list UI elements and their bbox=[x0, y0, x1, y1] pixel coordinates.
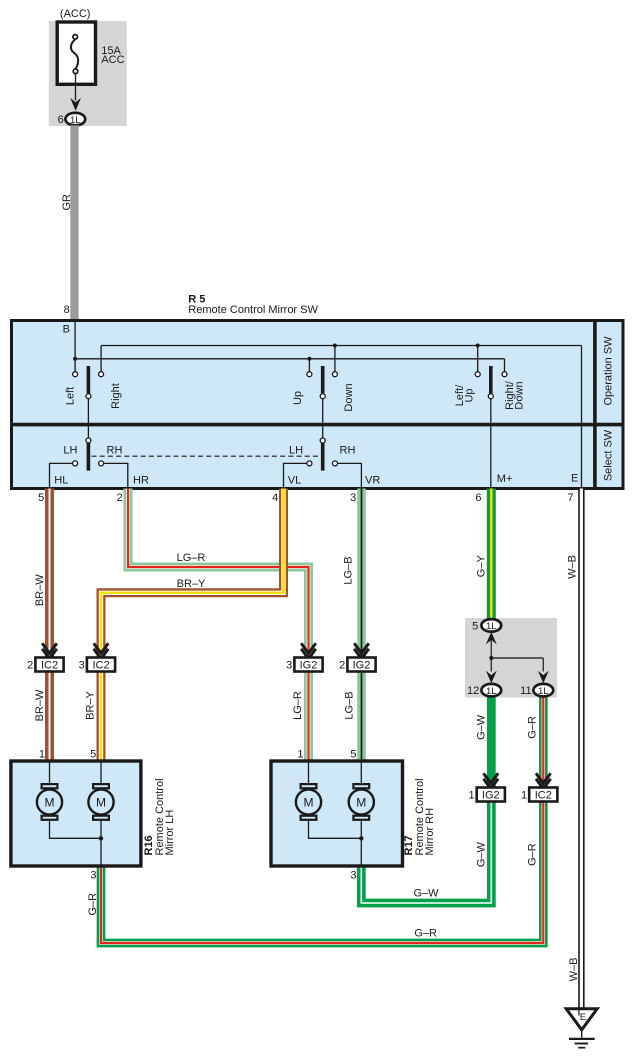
wire W-B pin E to ground bbox=[578, 489, 584, 1009]
wire LG-B pin VR to IG2 to R17 pin 5 bbox=[357, 489, 366, 761]
svg-text:BR–Y: BR–Y bbox=[177, 578, 206, 590]
svg-text:IC2: IC2 bbox=[41, 660, 58, 672]
svg-text:2: 2 bbox=[27, 660, 33, 672]
svg-text:1L: 1L bbox=[70, 115, 81, 126]
svg-text:8: 8 bbox=[64, 304, 70, 316]
bus line upper (E feed) bbox=[101, 345, 581, 347]
svg-text:Left: Left bbox=[65, 387, 77, 405]
junction node Down bbox=[333, 344, 337, 348]
svg-text:G–R: G–R bbox=[87, 893, 99, 916]
switch lever (operation) at x=322.7 bbox=[321, 366, 325, 393]
connector 1L pin 12 bbox=[481, 684, 501, 697]
junction node Left/Up bbox=[476, 344, 480, 348]
svg-text:LG–R: LG–R bbox=[292, 691, 304, 720]
svg-text:2: 2 bbox=[117, 492, 123, 504]
connector IC2 pin 2 bbox=[35, 658, 63, 672]
wire pin1 to motor1 bbox=[308, 762, 310, 784]
contact LH-1 bbox=[73, 461, 78, 466]
wire RH-1 to pin HR bbox=[101, 463, 128, 488]
svg-text:M: M bbox=[96, 795, 106, 809]
svg-text:5: 5 bbox=[472, 620, 478, 632]
motor M left bbox=[296, 789, 321, 814]
svg-text:LG–B: LG–B bbox=[344, 691, 356, 719]
wire motor2 to junction bbox=[100, 821, 102, 839]
junction node in 1L block bbox=[489, 656, 493, 660]
connector IG2 (pin 1) arrows bbox=[484, 773, 499, 783]
svg-text:LG–B: LG–B bbox=[343, 556, 355, 584]
ground E triangle bbox=[566, 1009, 597, 1030]
svg-text:M: M bbox=[304, 795, 314, 809]
stub to Left/Up contact bbox=[477, 346, 479, 372]
stub to Up contact bbox=[308, 359, 310, 372]
wire RH-2 to pin VR bbox=[335, 463, 361, 488]
svg-text:IG2: IG2 bbox=[300, 660, 318, 672]
connector IG2 pin 2 bbox=[347, 658, 375, 672]
svg-text:Remote Control Mirror SW: Remote Control Mirror SW bbox=[188, 304, 318, 316]
remote control mirror SW R5 box bbox=[12, 321, 624, 489]
svg-text:1: 1 bbox=[521, 790, 527, 802]
svg-text:1L: 1L bbox=[486, 686, 497, 697]
connector IC2 (pin 3) arrows bbox=[94, 643, 109, 653]
wire G-W IG2 to R17 pin 3 bbox=[361, 801, 491, 903]
svg-text:1: 1 bbox=[39, 748, 45, 760]
svg-text:RH: RH bbox=[340, 444, 356, 456]
svg-text:VL: VL bbox=[288, 475, 301, 487]
svg-text:G–R: G–R bbox=[527, 843, 539, 866]
link to select lever bbox=[322, 399, 324, 438]
wire LH-1 to pin HL bbox=[50, 463, 76, 488]
connector IC2 pin 1 bbox=[529, 788, 557, 802]
fuse panel gray block bbox=[49, 21, 127, 126]
contact Down bbox=[332, 372, 337, 377]
contact LH-2 bbox=[307, 461, 312, 466]
svg-text:G–W: G–W bbox=[413, 888, 439, 900]
contact Right bbox=[99, 372, 104, 377]
svg-text:M: M bbox=[45, 795, 55, 809]
svg-text:4: 4 bbox=[272, 492, 278, 504]
svg-text:2: 2 bbox=[339, 660, 345, 672]
stub to Left contact bbox=[74, 359, 76, 372]
svg-text:Up: Up bbox=[292, 391, 304, 405]
svg-text:G–Y: G–Y bbox=[475, 555, 487, 578]
connector 1L (fuse side) bbox=[65, 113, 85, 126]
svg-text:B: B bbox=[63, 324, 70, 336]
svg-text:1: 1 bbox=[297, 748, 303, 760]
connector 1L pin 11 bbox=[533, 684, 553, 697]
contact Right/Down bbox=[502, 372, 507, 377]
arrow down into 1L pin 11 bbox=[538, 671, 549, 683]
junction node bbox=[99, 836, 103, 840]
switch lever (select) bbox=[87, 443, 91, 471]
wire junction to pin 3 bbox=[360, 838, 362, 865]
svg-text:(ACC): (ACC) bbox=[60, 8, 91, 20]
junction block internal wire vertical bbox=[490, 641, 492, 672]
wire G-W 1L to IG2 bbox=[487, 696, 496, 788]
connector 1L pin 5 bbox=[481, 619, 501, 632]
wire E vertical to pin 7 bbox=[581, 346, 583, 489]
connector IG2 (pin 3) arrows bbox=[301, 643, 316, 653]
R16 box bbox=[11, 761, 141, 866]
svg-text:IC2: IC2 bbox=[92, 660, 109, 672]
divider vertical (label column) bbox=[593, 319, 597, 490]
svg-text:LH: LH bbox=[289, 444, 303, 456]
svg-text:BR–Y: BR–Y bbox=[85, 690, 97, 719]
svg-text:5: 5 bbox=[90, 748, 96, 760]
svg-text:IG2: IG2 bbox=[353, 660, 371, 672]
contact RH-2 bbox=[333, 461, 338, 466]
wire BR-Y pin VL to IC2 to R16 pin 5 bbox=[101, 489, 284, 761]
contact RH-1 bbox=[99, 461, 104, 466]
svg-text:BR–W: BR–W bbox=[34, 689, 46, 721]
svg-text:M: M bbox=[356, 795, 366, 809]
svg-text:E: E bbox=[580, 1012, 586, 1023]
svg-text:BR–W: BR–W bbox=[34, 574, 46, 606]
wire junction to pin 3 bbox=[100, 838, 102, 865]
fuse F "15A ACC" body bbox=[57, 22, 95, 84]
arrow into connector 1L bbox=[70, 98, 81, 111]
svg-text:1L: 1L bbox=[486, 621, 497, 632]
wire G-R IC2 to R16 pin 3 bbox=[101, 801, 543, 943]
svg-text:6: 6 bbox=[58, 114, 64, 126]
arrow down into 1L pin 12 bbox=[486, 671, 497, 683]
divider horizontal (Operation/Select) bbox=[10, 423, 625, 427]
contact Up bbox=[307, 372, 312, 377]
junction node bbox=[359, 836, 363, 840]
stub to Right contact bbox=[100, 346, 102, 372]
wire fuse to connector 1L bbox=[75, 74, 77, 101]
svg-text:Mirror RH: Mirror RH bbox=[424, 808, 436, 856]
svg-text:W–B: W–B bbox=[567, 555, 579, 579]
junction block internal wire right branch bbox=[542, 658, 544, 672]
link to select lever bbox=[87, 399, 89, 438]
svg-text:LH: LH bbox=[63, 444, 77, 456]
svg-text:GR: GR bbox=[61, 194, 73, 211]
motor M right bbox=[88, 789, 113, 814]
svg-text:E: E bbox=[571, 472, 578, 484]
contact Left/Up bbox=[475, 372, 480, 377]
wire BR-W pin HL to IC2 to R16 pin 1 bbox=[45, 489, 54, 761]
arrow up into 1L pin 5 bbox=[486, 632, 497, 644]
wire G-Y pin M+ to 1L bbox=[487, 489, 496, 620]
switch lever (operation) at x=490.8 bbox=[489, 366, 493, 393]
svg-text:3: 3 bbox=[79, 660, 85, 672]
wire LG-R pin HR to IG2 to R17 pin 1 bbox=[128, 489, 309, 761]
ground stem bbox=[581, 1030, 583, 1038]
svg-text:7: 7 bbox=[567, 492, 573, 504]
svg-text:1L: 1L bbox=[538, 686, 549, 697]
svg-text:IC2: IC2 bbox=[535, 790, 552, 802]
svg-text:HL: HL bbox=[54, 475, 68, 487]
contact Left bbox=[73, 372, 78, 377]
svg-text:HR: HR bbox=[133, 475, 149, 487]
R17 box bbox=[271, 761, 403, 866]
connector IC2 (pin 1) arrows bbox=[536, 773, 551, 783]
svg-text:11: 11 bbox=[520, 685, 531, 697]
wire LH-2 to pin VL bbox=[284, 463, 310, 488]
svg-text:5: 5 bbox=[38, 492, 44, 504]
junction block gray panel (1L) bbox=[465, 618, 557, 698]
junction block internal wire horizontal bbox=[491, 657, 543, 659]
svg-text:LG–R: LG–R bbox=[177, 552, 206, 564]
connector IC2 (pin 2) arrows bbox=[42, 643, 57, 653]
svg-text:W–B: W–B bbox=[568, 957, 580, 981]
stub to Down contact bbox=[334, 346, 336, 372]
svg-text:G–W: G–W bbox=[475, 841, 487, 867]
connector IG2 (pin 2) arrows bbox=[354, 643, 369, 653]
junction node B bbox=[73, 357, 77, 361]
svg-text:12: 12 bbox=[467, 685, 479, 697]
svg-text:M+: M+ bbox=[497, 473, 513, 485]
svg-text:G–R: G–R bbox=[414, 928, 437, 940]
fuse element bbox=[73, 35, 78, 40]
svg-text:3: 3 bbox=[350, 492, 356, 504]
wire motor1 to junction bbox=[309, 821, 362, 839]
svg-text:Down: Down bbox=[514, 381, 526, 409]
svg-text:RH: RH bbox=[107, 444, 123, 456]
wire B vertical bbox=[74, 319, 76, 359]
svg-text:5: 5 bbox=[350, 748, 356, 760]
svg-text:ACC: ACC bbox=[101, 54, 124, 66]
motor M left bbox=[37, 789, 62, 814]
wire M+ lever to pin 6 bbox=[490, 399, 492, 489]
wire pin1 to motor1 bbox=[49, 762, 51, 784]
junction node Up bbox=[307, 357, 311, 361]
wire motor1 to junction bbox=[50, 821, 102, 839]
switch lever (select) bbox=[321, 443, 325, 471]
wire G-R 1L to IC2 bbox=[539, 696, 548, 788]
wire pin5 to motor2 bbox=[360, 762, 362, 784]
svg-text:3: 3 bbox=[350, 869, 356, 881]
bus line lower (B feed) bbox=[75, 358, 504, 360]
svg-text:Operation SW: Operation SW bbox=[603, 336, 615, 406]
svg-text:VR: VR bbox=[365, 475, 380, 487]
svg-text:6: 6 bbox=[475, 492, 481, 504]
svg-text:3: 3 bbox=[90, 869, 96, 881]
svg-text:G–R: G–R bbox=[527, 716, 539, 739]
mechanical link dashed bbox=[92, 455, 320, 457]
svg-text:Up: Up bbox=[464, 388, 476, 402]
motor M right bbox=[349, 789, 374, 814]
svg-text:Mirror LH: Mirror LH bbox=[164, 810, 176, 856]
svg-text:Select SW: Select SW bbox=[603, 429, 615, 481]
wire GR (gray) fuse to mirror switch pin 8 bbox=[70, 125, 78, 319]
ground bar 2 bbox=[575, 1043, 589, 1045]
svg-text:1: 1 bbox=[468, 790, 474, 802]
ground bar 3 bbox=[578, 1047, 585, 1049]
svg-text:Down: Down bbox=[343, 383, 355, 411]
svg-text:Right: Right bbox=[110, 383, 122, 409]
svg-text:G–W: G–W bbox=[475, 714, 487, 740]
wire pin5 to motor2 bbox=[100, 762, 102, 784]
wire motor2 to junction bbox=[360, 821, 362, 839]
switch lever (operation) at x=88.4 bbox=[87, 366, 91, 393]
stub to Right/Down contact bbox=[504, 359, 506, 372]
ground bar 1 bbox=[569, 1038, 595, 1040]
connector IG2 pin 1 bbox=[477, 788, 505, 802]
svg-text:3: 3 bbox=[286, 660, 292, 672]
connector IC2 pin 3 bbox=[87, 658, 115, 672]
svg-text:IG2: IG2 bbox=[482, 790, 500, 802]
ground wire stub inside triangle bbox=[578, 1009, 580, 1016]
connector IG2 pin 3 bbox=[294, 658, 322, 672]
